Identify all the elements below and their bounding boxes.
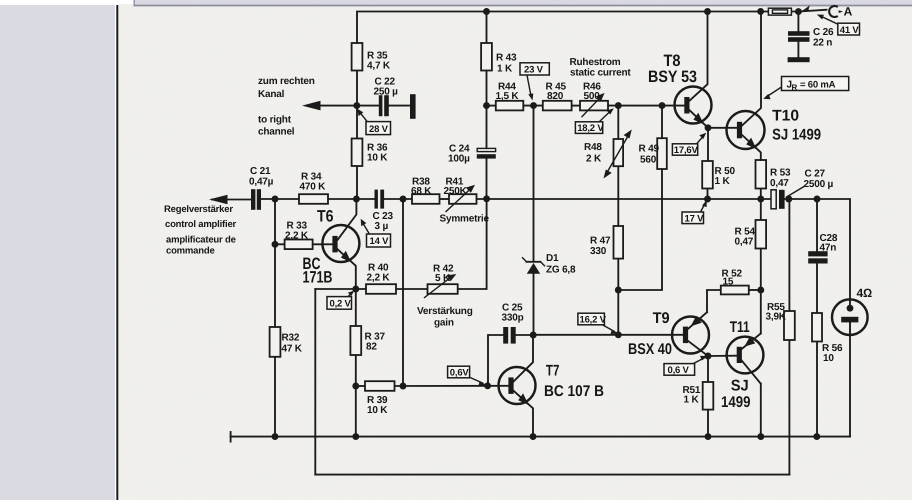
svg-text:15: 15 — [723, 277, 734, 288]
svg-text:static current: static current — [570, 68, 631, 79]
svg-text:3 µ: 3 µ — [375, 221, 389, 232]
wire: R36 bottom to base node — [356, 166, 358, 199]
svg-text:22 n: 22 n — [813, 38, 832, 49]
wire: R34 to T6 collector node — [328, 198, 374, 200]
wire: T9 base line — [533, 334, 683, 336]
node: rail/T8 collector — [704, 8, 711, 15]
wire: R53 bottom stub — [760, 189, 762, 200]
fuse — [768, 8, 791, 15]
node: output/R55 — [785, 196, 792, 203]
wire: speaker bottom lead — [849, 322, 851, 436]
wire: 23V node to R44 — [487, 105, 496, 107]
node: 0,2V T6 emitter — [352, 286, 359, 293]
resistor R55 — [784, 311, 795, 340]
svg-text:250K: 250K — [444, 186, 468, 197]
svg-text:C 21: C 21 — [250, 166, 271, 177]
svg-text:A: A — [844, 5, 853, 19]
node: symmetry — [483, 195, 490, 202]
label R48 — [584, 142, 602, 165]
resistor R48 (variable) — [604, 130, 632, 179]
node: ground/R51 — [705, 433, 712, 440]
svg-text:4,7 K: 4,7 K — [367, 61, 391, 72]
resistor R54 — [756, 220, 767, 249]
voltage box 41V with pointer — [821, 16, 839, 25]
label R41 — [444, 177, 468, 198]
node: 0,6V T9/T11 — [705, 353, 712, 360]
svg-text:0,47: 0,47 — [770, 178, 789, 189]
voltage box 17,6V with pointer — [697, 137, 704, 145]
svg-text:R48: R48 — [584, 142, 602, 153]
svg-text:Kanal: Kanal — [258, 89, 285, 100]
arrow to right channel — [302, 101, 321, 111]
svg-text:T9: T9 — [653, 310, 670, 327]
label R42 — [433, 264, 454, 285]
label 0,6V T7 pointer — [469, 377, 483, 383]
label R54 — [735, 227, 756, 248]
wire: C25 right to D1 node — [516, 334, 534, 336]
svg-text:23 V: 23 V — [524, 65, 544, 76]
svg-text:500: 500 — [584, 91, 601, 102]
wire: feedback bottom run — [315, 474, 789, 476]
node: ground/R32 — [272, 433, 279, 440]
capacitor C23 — [375, 190, 385, 209]
capacitor C26 — [788, 31, 810, 42]
node: ground/T11 collector — [757, 433, 764, 440]
label BC 171B — [303, 255, 333, 287]
svg-text:250 µ: 250 µ — [374, 87, 399, 98]
resistor R33 — [285, 240, 313, 250]
svg-text:470 K: 470 K — [300, 182, 327, 193]
resistor R36 — [352, 139, 363, 167]
wire: C26 drop from +A node — [797, 12, 799, 32]
voltage box 16,2V with pointer — [601, 324, 615, 332]
speaker connector 4ohm — [832, 299, 868, 335]
label R47 — [590, 236, 611, 258]
capacitor C21 — [251, 189, 261, 210]
label R33 — [285, 221, 309, 242]
svg-text:T6: T6 — [317, 208, 334, 226]
svg-text:R: R — [792, 83, 798, 92]
svg-text:10: 10 — [823, 353, 834, 364]
svg-text:47 K: 47 K — [282, 344, 303, 355]
wire: R41 to C24 node, long line to 17V node — [477, 198, 708, 200]
wire: D1 bottom to C25 node — [533, 274, 535, 335]
voltage box 14V — [367, 234, 391, 247]
node: R37/R39 — [352, 383, 359, 390]
wire: R47 bottom to mid node — [617, 259, 619, 290]
node: output/C28 — [814, 196, 821, 203]
wire: top supply rail — [357, 12, 798, 44]
label R51 — [683, 385, 701, 406]
voltage box 0,6V T7 — [448, 366, 470, 378]
label 28V pointer — [360, 112, 369, 123]
svg-text:82: 82 — [366, 342, 377, 353]
wire: T9 collector node down to R51 — [707, 356, 709, 382]
wire: D1 branch upper — [533, 106, 535, 261]
wire: R40 to R42 segment — [396, 288, 428, 290]
wire: R55 top to output node — [788, 199, 790, 311]
resistor R49 — [657, 138, 667, 169]
svg-text:channel: channel — [258, 127, 295, 138]
label R43 — [496, 53, 517, 75]
svg-text:R 47: R 47 — [590, 236, 611, 247]
svg-text:T7: T7 — [546, 362, 560, 379]
+A terminal — [829, 5, 852, 19]
capacitor C28 — [808, 251, 827, 263]
label C28 — [820, 233, 838, 254]
resistor R42 (variable) — [425, 274, 458, 298]
transistor T9 — [672, 312, 709, 356]
svg-text:SJ: SJ — [731, 378, 749, 395]
transistor T11 — [727, 333, 764, 383]
node: rail/R43 — [483, 8, 490, 15]
wire: R44 to D1 top node — [523, 105, 543, 107]
label R44 — [496, 82, 520, 103]
svg-text:= 60 mA: = 60 mA — [800, 80, 836, 91]
node: 18,2V — [615, 102, 622, 109]
wire: R39 node down to ground rail — [355, 386, 357, 437]
svg-text:BC 107 B: BC 107 B — [544, 383, 604, 400]
wire: R43 bottom to 23V node — [486, 71, 488, 106]
svg-text:2,2 K: 2,2 K — [285, 231, 309, 242]
wire: C24 drop from 23V node — [486, 106, 488, 149]
resistor R47 — [614, 226, 624, 259]
svg-text:Regelverstärker: Regelverstärker — [164, 204, 233, 215]
arrowhead on +A wire — [802, 5, 810, 11]
wire: T11 collector drop — [760, 384, 762, 437]
voltage box 0,6V T9 with pointer — [694, 358, 705, 364]
label R35 — [367, 51, 391, 72]
node: T8 base/R49 — [659, 102, 666, 109]
svg-text:0,2 V: 0,2 V — [330, 299, 352, 310]
transistor T8 — [675, 12, 712, 128]
node: rail/T10 collector — [757, 8, 764, 15]
svg-text:2500 µ: 2500 µ — [804, 179, 834, 190]
node: ground/R56 — [813, 433, 820, 440]
svg-text:10 K: 10 K — [367, 405, 388, 416]
label JR = 60 mA box with pointer — [767, 87, 782, 97]
wire: R51 bottom to ground rail — [707, 410, 709, 437]
label R34 — [300, 172, 327, 193]
node: 28V — [353, 102, 360, 109]
wire: R35 bottom to 28V node — [356, 71, 358, 106]
wire: R56 bottom to ground rail — [816, 342, 818, 437]
svg-text:R 49: R 49 — [639, 144, 660, 155]
svg-text:100µ: 100µ — [448, 154, 470, 165]
wire: R38 to R41 — [440, 198, 450, 200]
wire: mid node down to T9 base line — [617, 290, 619, 335]
resistor R46 (variable) — [580, 93, 608, 117]
wire: R54 bottom to R52 node — [760, 249, 762, 291]
label Ruhestrom static current — [570, 57, 632, 79]
wire: R49 top to T8 base node — [661, 106, 663, 139]
resistor R34 — [299, 194, 328, 204]
wire: feedback left vertical — [314, 289, 316, 475]
wire: R36 vertical — [356, 106, 358, 139]
resistor R41 (variable) — [446, 185, 477, 212]
svg-text:18,2 V: 18,2 V — [577, 123, 604, 134]
resistor R43 — [481, 43, 492, 71]
label Verstaerkung gain — [417, 306, 473, 329]
node: R47/R49 — [615, 287, 622, 294]
terminal bar after C22 — [410, 94, 416, 119]
node: C21/R34/R33 — [272, 196, 279, 203]
svg-text:R 53: R 53 — [770, 168, 791, 179]
svg-text:0,47: 0,47 — [735, 237, 754, 248]
svg-text:330p: 330p — [502, 313, 524, 324]
svg-text:1 K: 1 K — [715, 176, 731, 187]
svg-text:1499: 1499 — [721, 394, 751, 411]
label Regelverstaerker — [164, 204, 237, 257]
svg-text:2 K: 2 K — [586, 154, 602, 165]
wire: x=275 vertical C21 node down to R33 node and R32 — [274, 199, 276, 327]
label 0,2V pointer — [347, 293, 352, 297]
voltage box 17V with pointer — [701, 204, 706, 213]
resistor R52 — [721, 286, 749, 295]
wire: T8 emitter node down to R50 — [707, 128, 709, 161]
wire: C25 left corner down to T7 base node — [488, 335, 503, 386]
svg-text:0,6 V: 0,6 V — [668, 365, 690, 376]
svg-text:820: 820 — [547, 91, 564, 102]
svg-text:1 K: 1 K — [684, 395, 700, 406]
label R40 — [367, 263, 391, 284]
wire: C27 right to output nodes and speaker corner — [784, 199, 850, 305]
label R53 — [770, 168, 791, 190]
wire: ground rail — [231, 436, 850, 438]
svg-text:47n: 47n — [820, 243, 837, 254]
wire: feedback right vertical to R55 — [788, 340, 790, 475]
transistor T10 — [727, 12, 765, 161]
wire: T11 emitter riser — [760, 290, 762, 333]
wire: R48 top drop — [617, 106, 619, 139]
node: R53/R54 — [757, 196, 764, 203]
wire: R43 top drop from rail — [486, 12, 488, 44]
resistor R45 — [543, 101, 572, 111]
node: T8 emitter/T10 base — [705, 124, 712, 131]
svg-text:4Ω: 4Ω — [857, 286, 873, 300]
wire: R42 right to riser — [458, 199, 487, 289]
wire: R46 to 18,2V node, on to T8 base — [608, 105, 684, 107]
wire: R48 bottom through cross to R47 — [617, 166, 619, 226]
resistor R44 — [496, 101, 524, 111]
wire: C23 right to R38 node — [384, 198, 412, 200]
wire: T9 collector node to T11 base — [708, 355, 737, 357]
black divider line — [116, 5, 118, 500]
svg-text:gain: gain — [434, 318, 454, 329]
voltage box 23V with pointer — [527, 75, 531, 96]
wire: R39 left link — [356, 385, 365, 387]
wire: ground rail left end tick — [230, 432, 232, 442]
resistor R40 — [366, 284, 396, 294]
label C23 — [373, 211, 394, 232]
label R46 — [583, 82, 601, 103]
svg-text:1 K: 1 K — [497, 64, 513, 75]
wire: T6 emitter down to R37 — [355, 289, 357, 326]
label R45 — [546, 82, 567, 103]
svg-text:16,2 V: 16,2 V — [580, 315, 607, 326]
node: 14V T6 collector — [353, 196, 360, 203]
svg-text:SJ 1499: SJ 1499 — [772, 127, 821, 144]
node: 16,2V/D1/C25 — [530, 332, 537, 339]
label C27 with pointer — [787, 187, 805, 198]
wire: rail to +A terminal — [798, 10, 826, 12]
svg-text:R 43: R 43 — [496, 53, 517, 64]
voltage box 28V — [366, 122, 391, 135]
resistor R50 — [702, 161, 713, 189]
svg-text:D1: D1 — [546, 253, 559, 264]
node: R39/riser — [400, 383, 407, 390]
node: T9 base line tap — [615, 331, 622, 338]
label C22 — [374, 77, 399, 98]
input arrow (Regelverstaerker) — [209, 195, 228, 204]
svg-text:Verstärkung: Verstärkung — [417, 306, 473, 317]
svg-text:BSX 40: BSX 40 — [628, 341, 672, 358]
svg-text:2,2 K: 2,2 K — [367, 273, 391, 284]
wire: R45 to R46 — [572, 105, 580, 107]
capacitor C24 (electrolytic) — [477, 148, 496, 158]
svg-text:T10: T10 — [772, 108, 799, 125]
resistor R35 — [352, 43, 363, 71]
svg-text:0,47µ: 0,47µ — [249, 177, 274, 188]
label C25 — [502, 303, 524, 324]
capacitor C27 — [771, 190, 785, 209]
wire: R52 right link — [749, 289, 761, 291]
svg-text:to right: to right — [258, 115, 292, 126]
zener diode D1 — [523, 258, 545, 274]
svg-text:C 27: C 27 — [805, 169, 826, 180]
svg-text:10 K: 10 K — [367, 153, 388, 164]
capacitor C22 — [379, 95, 389, 116]
wire: R32 bottom to ground rail — [274, 357, 276, 437]
label D1 — [546, 253, 576, 276]
wire: C26 to chassis bar — [797, 42, 799, 58]
wire: T6 emitter node to feedback drop — [315, 288, 366, 290]
resistor R53 — [756, 160, 767, 189]
node: R44/R45/D1 — [530, 102, 537, 109]
svg-text:amplificateur de: amplificateur de — [166, 235, 236, 246]
node: R54/R52/T11 emitter — [757, 287, 764, 294]
top UI bar border — [134, 5, 912, 7]
svg-text:3,9K: 3,9K — [766, 312, 787, 323]
label R49 — [639, 144, 660, 166]
wire: mid node to R49 riser — [618, 169, 662, 290]
svg-text:560: 560 — [640, 155, 657, 166]
svg-text:17 V: 17 V — [685, 213, 705, 224]
svg-text:330: 330 — [590, 246, 607, 257]
wire: R37 bottom to R39 node — [355, 355, 357, 386]
svg-text:171B: 171B — [303, 268, 333, 286]
svg-text:control amplifier: control amplifier — [165, 219, 237, 230]
label R39 — [367, 395, 388, 416]
wire: C24 bottom to symmetry node — [486, 159, 488, 200]
label R55 — [766, 302, 787, 323]
label R36 — [367, 143, 388, 164]
wire: R53 node to R54 — [760, 199, 762, 220]
svg-text:1,5 K: 1,5 K — [496, 91, 520, 102]
resistor R51 — [703, 382, 714, 410]
svg-text:5 K: 5 K — [435, 273, 451, 284]
svg-text:T11: T11 — [730, 319, 750, 336]
svg-text:ZG 6,8: ZG 6,8 — [546, 265, 576, 276]
node: 23V — [483, 102, 490, 109]
label R56 — [822, 343, 843, 364]
label C24 — [448, 144, 470, 165]
resistor R38 — [412, 194, 440, 204]
wire: C21 to node, node to R34 — [261, 198, 299, 200]
svg-text:14 V: 14 V — [370, 236, 390, 247]
wire: 28V node horizontal (arrow to C22) — [307, 105, 379, 107]
svg-text:R32: R32 — [282, 333, 300, 344]
wire: C28 branch top — [816, 199, 818, 251]
svg-text:28 V: 28 V — [369, 124, 389, 135]
node: 17V — [704, 196, 711, 203]
wire: R52 link to T9 emitter — [707, 290, 749, 312]
label R38 — [411, 177, 432, 198]
svg-text:Ruhestrom: Ruhestrom — [570, 57, 621, 68]
wire: R38 node vertical down to R39 node — [402, 199, 404, 386]
wire: R39 right to T7 base — [395, 385, 509, 387]
voltage box 0,2V — [327, 297, 352, 310]
svg-text:C 26: C 26 — [813, 27, 834, 38]
label 14V pointer — [363, 223, 371, 236]
resistor R39 — [365, 381, 395, 391]
wire: R33 to T6 base — [313, 243, 333, 245]
wire: input line from arrow to C21 — [212, 199, 251, 201]
svg-text:commande: commande — [166, 246, 215, 257]
wire: T8 emitter node to T10 base — [708, 127, 737, 129]
wire: 17V node to R53 node — [708, 198, 772, 200]
wire: C28 to R56 — [816, 264, 818, 314]
wire: C22 right plate to terminal bar — [389, 105, 410, 107]
resistor R32 — [270, 327, 281, 357]
wire: R50 bottom to 17V node — [707, 189, 709, 200]
node: rail/+A/C26 — [795, 8, 802, 15]
node: 0,6V T7 base — [484, 382, 491, 389]
label to right channel — [258, 115, 295, 138]
svg-text:41 V: 41 V — [840, 25, 860, 36]
node: C23/R38 — [400, 196, 407, 203]
node: ground/T7 emitter — [530, 433, 537, 440]
transistor T6 — [322, 199, 359, 289]
label SJ 1499 (T11) — [721, 378, 751, 412]
chassis bar below C26 — [788, 57, 810, 62]
voltage box 18,2V with pointer — [599, 112, 610, 123]
node: R33 tap — [272, 241, 279, 248]
capacitor C25 — [503, 327, 516, 344]
label C21 — [249, 166, 274, 188]
top UI bar — [134, 0, 912, 5]
label R52 — [722, 269, 743, 288]
node: ground/R37 — [352, 433, 359, 440]
svg-text:zum rechten: zum rechten — [258, 76, 315, 87]
label R50 — [715, 166, 736, 187]
wire: R33 node to R33 — [275, 243, 285, 245]
svg-text:BSY 53: BSY 53 — [648, 68, 697, 86]
label R32 — [282, 333, 303, 355]
transistor T7 — [499, 335, 536, 437]
label R37 — [365, 332, 386, 353]
svg-text:68 K: 68 K — [411, 186, 432, 197]
label zum rechten Kanal — [258, 76, 315, 100]
label C26 — [813, 27, 834, 49]
resistor R37 — [350, 326, 361, 355]
left gray sidebar — [0, 5, 115, 500]
svg-text:0,6V: 0,6V — [450, 368, 470, 379]
svg-text:Symmetrie: Symmetrie — [440, 214, 490, 225]
resistor R56 — [812, 313, 822, 342]
svg-text:17,6V: 17,6V — [674, 145, 699, 156]
